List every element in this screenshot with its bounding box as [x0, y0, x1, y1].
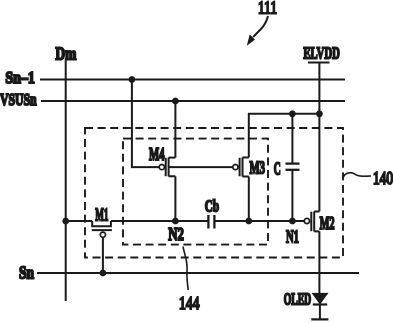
wire Sn scan line: [37, 272, 359, 274]
junction on Sn line at M1 gate: [100, 270, 107, 277]
dashed box 140 pixel circuit: [85, 128, 343, 258]
svg-text:M4: M4: [149, 144, 165, 164]
svg-text:Sn–1: Sn–1: [5, 68, 35, 87]
capacitor Cb: [208, 215, 214, 229]
junction M3 source on row: [245, 218, 252, 225]
svg-text:M1: M1: [95, 205, 108, 225]
svg-text:M2: M2: [320, 213, 335, 233]
wire capacitor C bottom lead to N1: [291, 170, 293, 221]
wire M3 source down to row: [248, 177, 250, 222]
svg-text:Sn: Sn: [19, 262, 34, 282]
svg-text:ELVDD: ELVDD: [303, 43, 339, 62]
junction on VSUSn line at M4 source branch: [172, 98, 179, 105]
power ELVDD terminal bar: [308, 62, 330, 64]
svg-text:144: 144: [179, 293, 200, 313]
wire ELVDD vertical to M2 drain: [318, 63, 320, 212]
svg-text:Cb: Cb: [205, 197, 219, 216]
wire row M1 to Cb left plate: [111, 220, 208, 222]
svg-text:111: 111: [258, 0, 277, 17]
junction ELVDD line: [316, 110, 323, 117]
wire VSUSn sustain line: [41, 100, 345, 102]
wire M4 source up to VSUSn: [174, 101, 176, 158]
junction row at Dm: [62, 218, 69, 225]
wire M3 drain to ELVDD horizontal: [249, 114, 320, 158]
junction node N1: [289, 218, 296, 225]
transistor M3: [233, 157, 249, 176]
svg-text:VSUSn: VSUSn: [0, 90, 37, 109]
wire M4 drain down to node N2: [174, 176, 176, 221]
wire Dm data line vertical: [65, 61, 67, 302]
wire Sn-1 branch down to M4 gate: [132, 80, 159, 168]
wire capacitor C top lead: [291, 114, 293, 164]
leader squiggle for 140: [343, 173, 371, 178]
wire main row from Dm to M1: [66, 220, 93, 222]
wire Sn-1 scan line: [40, 79, 345, 81]
wire M2 source down to OLED anode: [318, 231, 320, 293]
svg-text:OLED: OLED: [284, 289, 312, 308]
transistor M4: [159, 158, 175, 177]
svg-text:M3: M3: [250, 158, 266, 178]
wire M4 body tap to M3 gate: [169, 166, 233, 168]
svg-text:N1: N1: [286, 226, 299, 246]
svg-text:C: C: [274, 159, 281, 179]
junction node N2: [172, 218, 179, 225]
leader squiggle for 144: [183, 247, 188, 291]
svg-text:140: 140: [373, 168, 393, 188]
leader arrow for 111: [247, 16, 268, 46]
transistor M2: [304, 211, 319, 231]
wire M1 gate down to Sn: [102, 237, 104, 273]
transistor M1: [92, 221, 112, 237]
diode OLED: [311, 293, 328, 319]
dashed box 144 compensation unit: [123, 139, 268, 245]
junction on Sn-1 line at M4 gate branch: [129, 76, 136, 83]
wire row Cb right plate to M2 gate: [214, 220, 304, 222]
svg-text:N2: N2: [168, 224, 184, 244]
junction capacitor C top tap: [289, 110, 296, 117]
capacitor C: [286, 164, 300, 170]
